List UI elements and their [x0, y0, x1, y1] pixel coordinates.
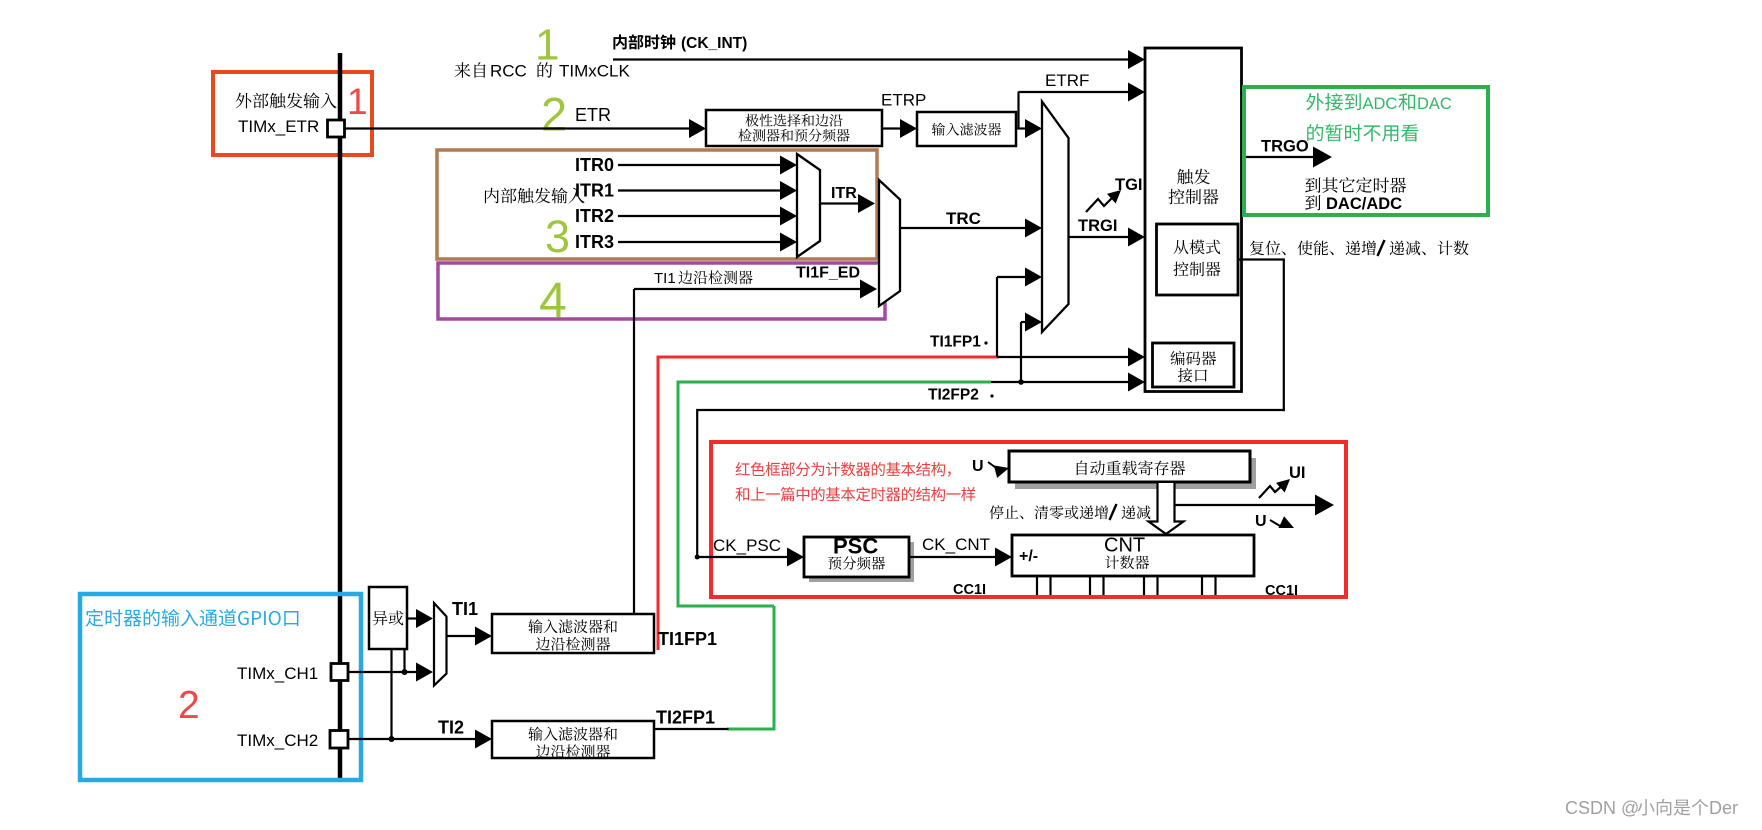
- wire ITR: [820, 194, 875, 213]
- mux ITR inputs: [797, 154, 820, 257]
- label TRC: [946, 209, 981, 228]
- svg-text:TI1FP1: TI1FP1: [930, 334, 981, 351]
- label CK_CNT: [922, 535, 990, 554]
- label TI1FP1 (mid): [930, 334, 988, 351]
- svg-text:CC1I: CC1I: [1265, 583, 1298, 599]
- label TIMx_CH1: [237, 664, 318, 683]
- svg-text:ETRP: ETRP: [881, 91, 926, 110]
- label to other timers: [1305, 177, 1406, 193]
- green note line1: [1306, 93, 1452, 113]
- wire ITR2: [618, 207, 797, 226]
- svg-text:TIMx_ETR: TIMx_ETR: [238, 117, 319, 136]
- label to DAC/ADC: [1305, 195, 1402, 213]
- wire TI2FP1 stub: [654, 728, 729, 730]
- block slave mode controller: [1157, 224, 1239, 295]
- block CNT counter: [1012, 535, 1254, 577]
- label TI1: [452, 599, 478, 619]
- label CC1I left: [953, 582, 986, 598]
- wire TRC: [900, 219, 1042, 238]
- wire CK_PSC: [696, 548, 804, 567]
- wire XOR taps: [389, 649, 408, 742]
- update arrow (hollow): [1149, 483, 1184, 534]
- svg-text:CK_PSC: CK_PSC: [713, 536, 781, 555]
- label TRGI: [1078, 217, 1117, 235]
- svg-text:ITR1: ITR1: [575, 181, 614, 201]
- annotation frame 1 TIMx_ETR (orange): [213, 72, 372, 155]
- label TI2FP1: [656, 708, 715, 728]
- mux TRGI selector (TRC): [879, 180, 900, 306]
- watermark CSDN: [1565, 798, 1738, 818]
- wire TRGI: [1069, 228, 1146, 247]
- label TI1F_ED: [796, 265, 860, 282]
- mux trigger sources (big): [1042, 102, 1069, 333]
- annotation frame counter (red): [711, 442, 1346, 597]
- svg-text:DAC: DAC: [1417, 95, 1452, 113]
- svg-text:+/-: +/-: [1019, 548, 1038, 565]
- wire ITR0: [618, 156, 797, 175]
- label internal trigger input: [485, 188, 585, 204]
- svg-text:(CK_INT): (CK_INT): [681, 35, 747, 52]
- label ITR3: [575, 232, 614, 252]
- svg-text:RCC: RCC: [490, 62, 527, 81]
- wire CK_INT: [613, 50, 1145, 69]
- svg-text:CSDN @: CSDN @: [1565, 798, 1639, 818]
- label CK_PSC: [713, 536, 781, 555]
- label TIMx_ETR: [238, 117, 319, 136]
- red digit 2: [178, 684, 200, 727]
- event arrow UI (zigzag): [1259, 474, 1294, 498]
- annotation frame ADC/DAC note (green): [1244, 87, 1488, 215]
- wire TI2FP2 green: [677, 382, 992, 729]
- wire ITR1: [618, 181, 797, 200]
- label TIMx_CH2: [237, 731, 318, 750]
- label ITR2: [575, 206, 614, 226]
- capture compare lines below CNT: [1037, 576, 1216, 595]
- svg-text:ITR: ITR: [831, 185, 857, 202]
- label ETRF: [1045, 71, 1089, 90]
- wire CK_CNT: [909, 548, 1012, 567]
- label TI2: [438, 718, 464, 738]
- wire TI1: [447, 627, 493, 646]
- svg-text:TRGO: TRGO: [1261, 138, 1309, 156]
- svg-text:UI: UI: [1289, 464, 1306, 482]
- block PSC prescaler: [804, 534, 909, 578]
- blue note: [86, 609, 299, 627]
- svg-text:PSC: PSC: [833, 534, 878, 559]
- label TI1FP1: [658, 629, 717, 649]
- shadow PSC: [809, 542, 914, 582]
- label ITR1: [575, 181, 614, 201]
- svg-text:4: 4: [539, 273, 567, 329]
- svg-text:U: U: [972, 458, 984, 475]
- event arrow U (ARR left): [972, 458, 1011, 478]
- label reset/enable/up-down/count: [1250, 240, 1469, 256]
- GPIO rail (thick vertical line): [338, 53, 343, 779]
- pad TIMx_CH1: [331, 664, 348, 681]
- svg-text:TIMxCLK: TIMxCLK: [559, 62, 631, 81]
- svg-text:1: 1: [535, 21, 559, 70]
- mux TI1 select: [434, 603, 447, 686]
- wire slave mode feedback: [695, 260, 1285, 560]
- wire ETRF to trigger controller: [1016, 83, 1145, 139]
- shadow ARR: [1015, 458, 1256, 489]
- label TRGO: [1261, 138, 1309, 156]
- svg-text:ITR2: ITR2: [575, 206, 614, 226]
- block input filter (ETR): [917, 112, 1016, 146]
- label stop/clear/updown: [989, 504, 1150, 520]
- svg-text:ETRF: ETRF: [1045, 71, 1089, 90]
- svg-text:DAC/ADC: DAC/ADC: [1326, 195, 1402, 213]
- wire update event out: [1175, 495, 1334, 516]
- event arrow TGI (zigzag): [1086, 185, 1125, 212]
- block input filter TI2: [492, 721, 654, 758]
- block encoder interface: [1153, 343, 1235, 387]
- annotation frame 2 GPIO (blue): [80, 594, 361, 780]
- svg-text:2: 2: [541, 88, 567, 141]
- label U (lower): [1255, 513, 1267, 530]
- label CC1I right: [1265, 583, 1298, 599]
- label TI2FP2 (mid): [928, 387, 994, 404]
- svg-text:TI1FP1: TI1FP1: [658, 629, 717, 649]
- annotation frame 3 internal triggers (brown): [437, 150, 877, 259]
- label ITR0: [575, 155, 614, 175]
- red note: [735, 462, 975, 501]
- wire TI1FP1 to encoder: [997, 268, 1145, 367]
- wire ETRP: [882, 119, 917, 138]
- svg-text:TI2FP1: TI2FP1: [656, 708, 715, 728]
- label UI: [1289, 464, 1306, 482]
- label TIMxCLK from RCC: [455, 62, 631, 81]
- annotation frame 4 TI1F_ED (purple): [438, 263, 885, 319]
- block auto-reload register: [1009, 451, 1250, 482]
- svg-text:U: U: [1255, 513, 1267, 530]
- svg-text:2: 2: [178, 684, 200, 727]
- svg-text:ITR0: ITR0: [575, 155, 614, 175]
- svg-text:1: 1: [347, 81, 368, 122]
- label CK_INT internal clock: [613, 34, 747, 52]
- svg-text:3: 3: [545, 211, 570, 262]
- section number 2 (green): [541, 88, 567, 141]
- svg-text:TRGI: TRGI: [1078, 217, 1117, 235]
- block input filter TI1: [492, 614, 654, 653]
- wire TI1 from CH1: [348, 663, 433, 682]
- label TGI: [1115, 176, 1143, 194]
- svg-text:TI2: TI2: [438, 718, 464, 738]
- block trigger controller: [1145, 48, 1242, 392]
- block XOR: [369, 587, 407, 649]
- event arrow U (lower): [1270, 516, 1297, 534]
- svg-text:ADC: ADC: [1363, 95, 1398, 113]
- block polarity selection / edge detector / prescaler: [706, 110, 882, 146]
- green note line2: [1307, 124, 1418, 142]
- label TI1 edge detector: [654, 270, 753, 287]
- label ETRP: [881, 91, 926, 110]
- wire TRGO: [1242, 147, 1333, 168]
- wire ETR: [344, 119, 706, 138]
- wire TI2FP2 to encoder: [991, 313, 1145, 392]
- section number 4 (green): [539, 273, 567, 329]
- wire TI1F_ED: [634, 280, 877, 615]
- svg-text:TIMx_CH1: TIMx_CH1: [237, 664, 318, 683]
- label ETR: [575, 105, 611, 125]
- wire TI2: [348, 730, 492, 749]
- pad TIMx_CH2: [330, 731, 348, 749]
- label external trigger input: [236, 93, 337, 109]
- svg-text:CNT: CNT: [1104, 535, 1145, 557]
- svg-text:Der: Der: [1709, 798, 1738, 818]
- svg-text:CK_CNT: CK_CNT: [922, 535, 990, 554]
- svg-text:TI1: TI1: [654, 270, 676, 287]
- svg-text:TI1: TI1: [452, 599, 478, 619]
- wire XOR out: [407, 609, 433, 628]
- svg-text:TI2FP2: TI2FP2: [928, 387, 979, 404]
- svg-text:ITR3: ITR3: [575, 232, 614, 252]
- svg-text:ETR: ETR: [575, 105, 611, 125]
- section number 1 (green): [535, 21, 559, 70]
- red digit 1: [347, 81, 368, 122]
- svg-text:TI1F_ED: TI1F_ED: [796, 265, 860, 282]
- pad TIMx_ETR: [328, 120, 345, 137]
- wire TI1FP1 red vertical: [657, 357, 1000, 650]
- svg-text:CC1I: CC1I: [953, 582, 986, 598]
- label ITR: [831, 185, 857, 202]
- svg-text:TIMx_CH2: TIMx_CH2: [237, 731, 318, 750]
- section number 3 (green): [545, 211, 570, 262]
- wire ITR3: [618, 233, 797, 252]
- svg-text:TRC: TRC: [946, 209, 981, 228]
